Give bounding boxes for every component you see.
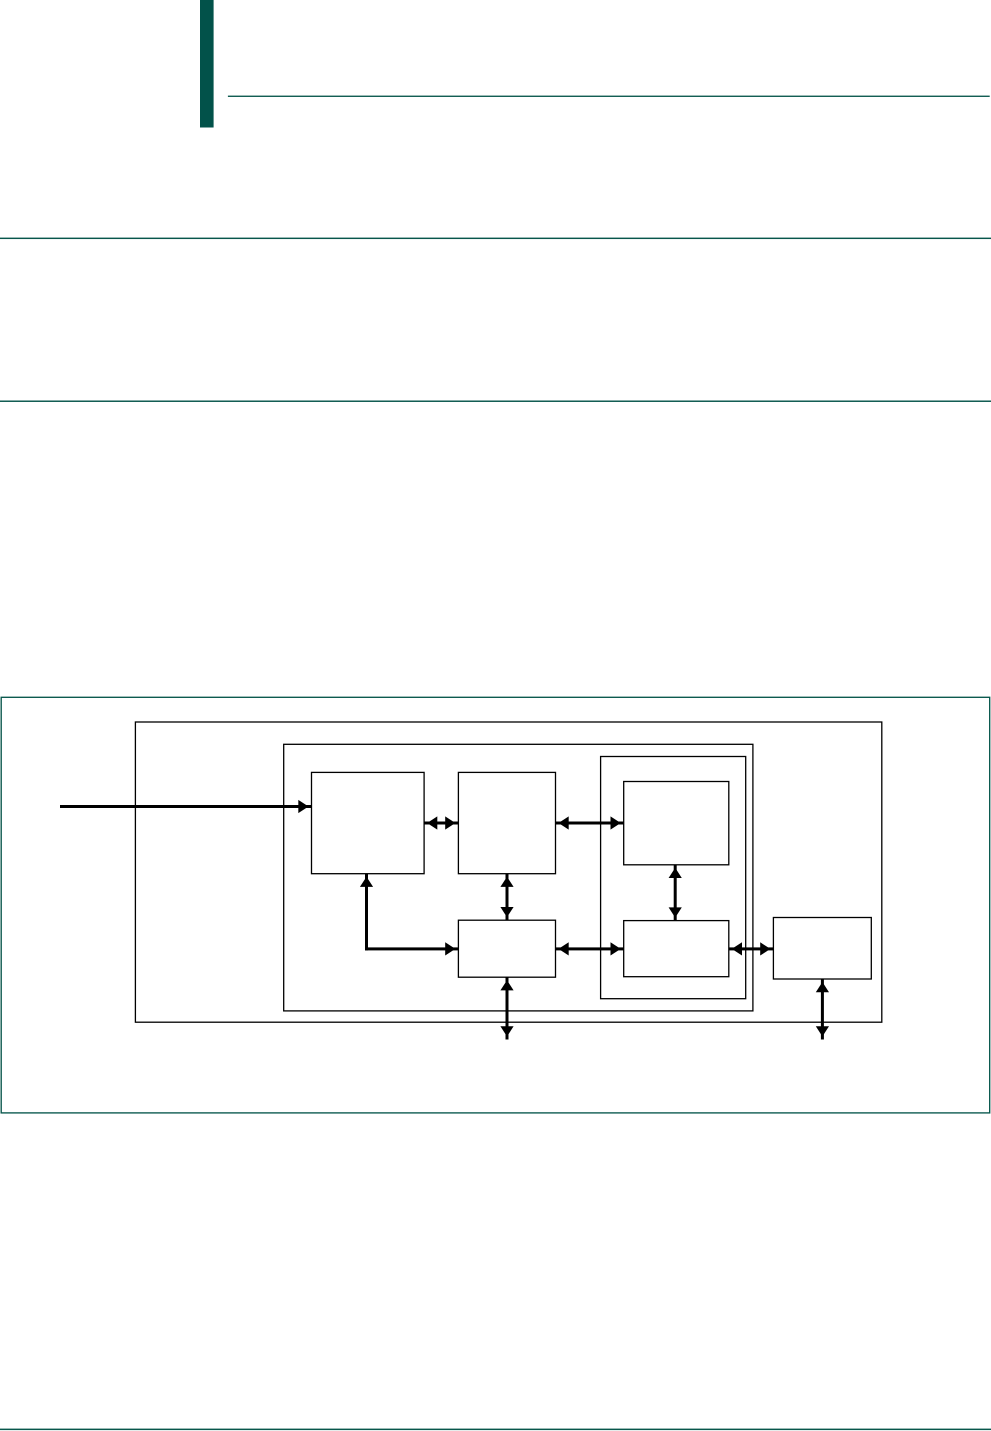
- block 1: [312, 772, 425, 873]
- inner boundary rect B: [284, 744, 753, 1011]
- bus arrow block2-block4 vertical: [500, 874, 513, 921]
- header sidebar bar: [200, 0, 214, 128]
- block 6: [773, 918, 871, 980]
- section rule 2: [0, 401, 991, 402]
- elbow arrow block1-block4: [360, 874, 459, 956]
- block 5: [624, 921, 729, 977]
- block 4: [458, 920, 555, 977]
- block 3: [624, 782, 729, 865]
- bus arrow block4-block5: [556, 942, 624, 955]
- bus arrow block2-block3: [556, 816, 624, 829]
- header rule: [228, 96, 990, 97]
- bus arrow block5-block6: [729, 942, 774, 955]
- figure frame: [1, 697, 990, 1113]
- bus arrow block1-block2: [424, 816, 458, 829]
- block 2: [458, 772, 555, 873]
- section rule 1: [0, 238, 991, 239]
- footer rule: [0, 1429, 991, 1431]
- bus arrow block3-block5 vertical: [669, 865, 682, 921]
- port arrow below block6 vertical: [816, 979, 829, 1040]
- sub-block boundary rect C: [601, 757, 746, 999]
- input arrow: [60, 800, 312, 813]
- chip boundary rect A: [135, 722, 881, 1022]
- port arrow below block4 vertical: [500, 977, 513, 1039]
